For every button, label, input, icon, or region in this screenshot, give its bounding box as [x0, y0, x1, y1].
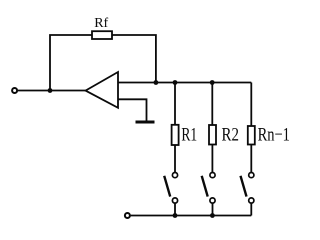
- resistor Rf: [92, 31, 112, 39]
- wire: bottom rail: [131, 215, 252, 217]
- ground: [136, 121, 155, 124]
- wire: S1 to bottom rail: [174, 204, 176, 216]
- wire: R2 to switch S2: [211, 145, 213, 173]
- wire: Rn-1 to switch Sn-1: [250, 145, 252, 173]
- wire: non-inverting input to ground: [118, 99, 147, 121]
- svg-text:Rn−1: Rn−1: [258, 125, 290, 146]
- resistor R2: [209, 125, 216, 145]
- resistor Rn-1: [248, 126, 255, 145]
- wire: S2 to bottom rail: [212, 204, 214, 216]
- resistor R1: [172, 125, 179, 145]
- input terminal (bottom open circle): [125, 213, 130, 218]
- wire: feedback left vertical + top run to Rf: [50, 35, 92, 91]
- wire: inverting-input top rail: [118, 82, 251, 84]
- output terminal (left open circle): [12, 88, 17, 93]
- switch S2: [202, 173, 215, 204]
- switch Sn-1: [241, 173, 254, 204]
- svg-text:R1: R1: [181, 124, 197, 145]
- wire: rail down to R2: [211, 83, 213, 126]
- wire: Sn-1 down to bottom rail corner: [250, 204, 252, 216]
- node: rail to R1 branch: [173, 80, 178, 85]
- node: S2 joins bottom rail: [210, 213, 215, 218]
- wire: rail down to R1: [174, 83, 176, 125]
- wire: Rf to top rail (right feedback corner): [112, 35, 156, 83]
- wire: R1 to switch S1: [174, 145, 176, 172]
- op-amp U1 (triangle, output at left apex): [86, 72, 119, 108]
- svg-text:Rf: Rf: [94, 16, 108, 31]
- node: S1 joins bottom rail: [173, 213, 178, 218]
- svg-text:R2: R2: [222, 124, 239, 145]
- node: rail to R2 branch: [210, 80, 215, 85]
- wire: rail corner down to Rn-1: [250, 83, 252, 127]
- switch S1: [164, 173, 177, 204]
- node: output/feedback junction: [48, 88, 53, 93]
- wire: output terminal to op-amp apex: [18, 90, 86, 92]
- node: feedback joins inverting-input rail: [154, 80, 159, 85]
